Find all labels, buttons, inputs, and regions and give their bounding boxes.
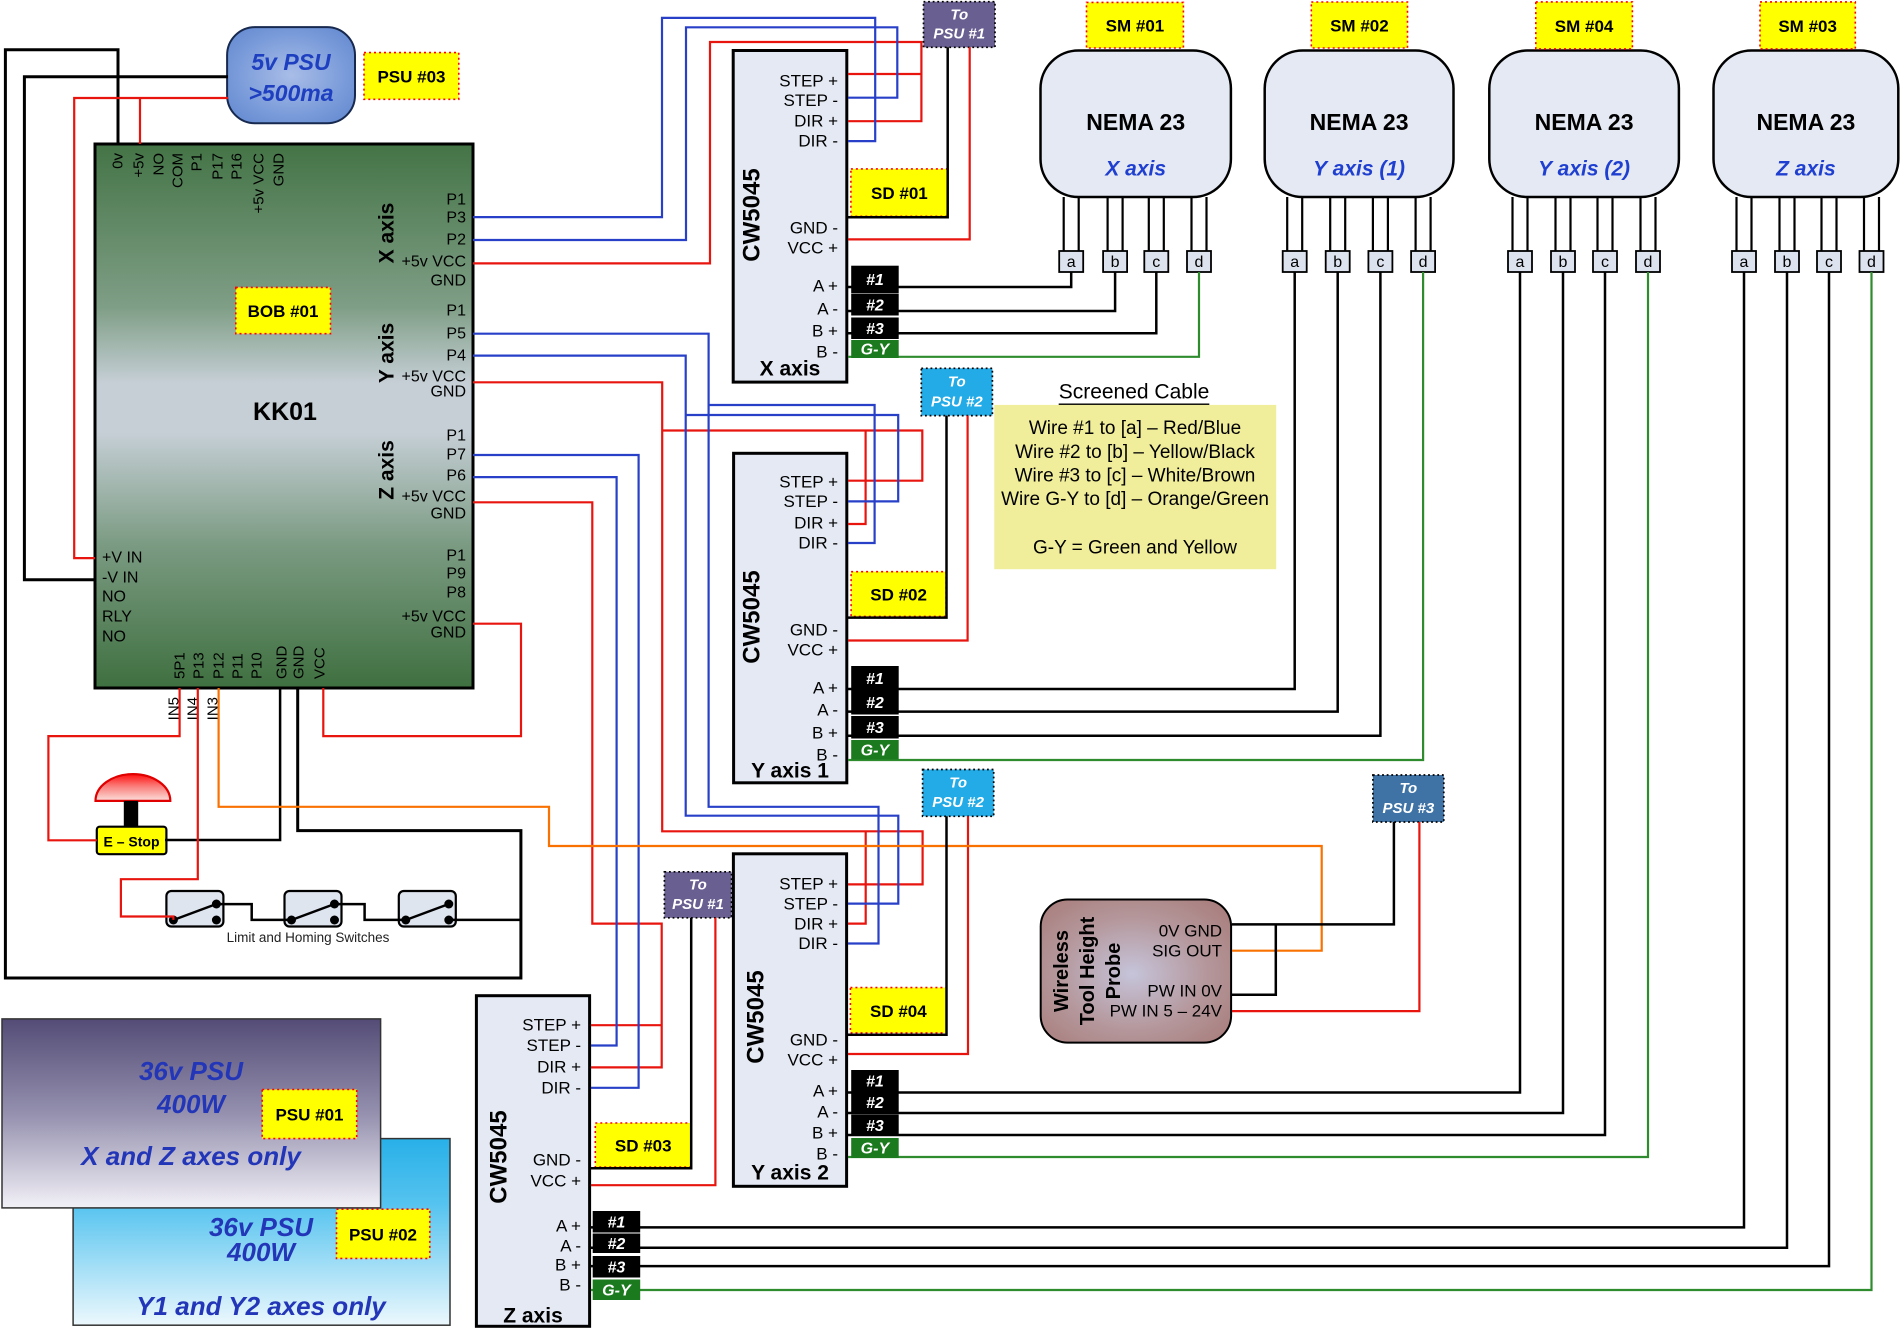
wire 0v ground frame loop xyxy=(5,50,521,978)
label PSU #01 xyxy=(262,1090,357,1139)
svg-text:Tool Height: Tool Height xyxy=(1077,916,1099,1025)
svg-text:Wire #3 to [c] – White/Brown: Wire #3 to [c] – White/Brown xyxy=(1015,466,1256,487)
svg-text:G-Y: G-Y xyxy=(602,1282,632,1299)
e-stop button xyxy=(96,774,171,854)
power supply 36v PSU #01 xyxy=(2,1019,381,1208)
limit switch S2 xyxy=(285,891,342,927)
wire Y1 A+ to SM2 a xyxy=(848,272,1295,689)
svg-text:STEP +: STEP + xyxy=(779,473,838,492)
svg-text:X axis: X axis xyxy=(760,358,821,381)
stepper driver U-X (X axis) xyxy=(733,51,847,383)
svg-text:5P1: 5P1 xyxy=(172,652,189,679)
svg-text:SM #04: SM #04 xyxy=(1555,17,1614,36)
svg-text:STEP -: STEP - xyxy=(784,492,838,511)
wire -V IN to 5v PSU 0v xyxy=(24,77,228,580)
svg-text:GND: GND xyxy=(430,625,466,642)
svg-text:COM: COM xyxy=(170,153,187,188)
wire P4 branch to Y1 STEP- xyxy=(686,415,899,501)
stepper motor SM3 (Z axis) xyxy=(1714,51,1899,273)
svg-text:GND: GND xyxy=(430,384,466,401)
svg-text:PW IN 0V: PW IN 0V xyxy=(1147,982,1222,1001)
svg-text:P13: P13 xyxy=(191,652,208,679)
wire number labels Y1 driver xyxy=(851,666,899,760)
svg-text:P1: P1 xyxy=(446,428,466,445)
svg-text:Y axis 2: Y axis 2 xyxy=(751,1162,829,1185)
svg-text:PSU #2: PSU #2 xyxy=(932,794,984,811)
svg-text:c: c xyxy=(1601,254,1609,271)
svg-text:A -: A - xyxy=(817,1103,838,1122)
svg-text:b: b xyxy=(1111,254,1120,271)
svg-text:A +: A + xyxy=(813,277,838,296)
power supply 5v PSU xyxy=(227,27,355,123)
svg-text:VCC +: VCC + xyxy=(530,1172,581,1191)
svg-text:a: a xyxy=(1740,254,1749,271)
svg-text:NO: NO xyxy=(102,589,126,606)
label To PSU #3 (probe) xyxy=(1373,775,1444,822)
svg-text:d: d xyxy=(1419,254,1428,271)
svg-text:To: To xyxy=(689,877,707,894)
wire Z VCC to Z DIR+ xyxy=(473,502,662,1067)
wire To PSU2 VCC to Y1 driver xyxy=(848,416,968,641)
svg-text:c: c xyxy=(1825,254,1833,271)
svg-text:SM #02: SM #02 xyxy=(1330,17,1389,36)
svg-text:P6: P6 xyxy=(446,468,466,485)
wire P4 to Y2 STEP- xyxy=(473,356,898,904)
svg-text:Y axis: Y axis xyxy=(376,323,399,383)
svg-text:PSU #03: PSU #03 xyxy=(377,68,445,87)
label PSU #02 xyxy=(337,1209,430,1258)
svg-text:PSU #01: PSU #01 xyxy=(275,1106,343,1125)
svg-text:P10: P10 xyxy=(249,652,266,679)
svg-text:X and Z axes only: X and Z axes only xyxy=(79,1141,302,1171)
svg-text:b: b xyxy=(1559,254,1568,271)
wire 5v PSU to +5v and +V IN xyxy=(74,98,228,558)
svg-text:Z axis: Z axis xyxy=(503,1305,563,1328)
stepper motor SM4 (Y axis (2)) xyxy=(1489,51,1679,273)
svg-text:P1: P1 xyxy=(446,303,466,320)
svg-text:Z axis: Z axis xyxy=(1775,158,1836,181)
label SD #01 xyxy=(851,169,948,216)
svg-text:E – Stop: E – Stop xyxy=(103,834,159,850)
stepper driver U-Y2 (Y axis 2) xyxy=(733,854,846,1187)
svg-text:PSU #1: PSU #1 xyxy=(933,26,985,43)
svg-text:#2: #2 xyxy=(866,298,884,315)
wire GND to e-stop xyxy=(165,688,280,840)
svg-text:Screened Cable: Screened Cable xyxy=(1059,381,1210,404)
wire Y VCC branch to Y1 STEP+ xyxy=(662,431,922,481)
svg-text:A -: A - xyxy=(817,701,838,720)
svg-text:Wire #1 to [a] – Red/Blue: Wire #1 to [a] – Red/Blue xyxy=(1029,418,1241,439)
svg-text:SD #04: SD #04 xyxy=(870,1002,927,1021)
svg-text:GND -: GND - xyxy=(790,621,838,640)
svg-text:b: b xyxy=(1333,254,1342,271)
svg-text:VCC +: VCC + xyxy=(787,239,838,258)
svg-text:0v: 0v xyxy=(110,153,127,169)
wire Y1 B- to SM2 d xyxy=(848,272,1423,760)
label SM #02 xyxy=(1311,2,1407,48)
label PSU #03 xyxy=(364,53,459,100)
svg-text:To: To xyxy=(950,6,968,23)
svg-text:#1: #1 xyxy=(866,272,884,289)
label SD #03 xyxy=(595,1123,691,1167)
svg-text:P5: P5 xyxy=(446,326,466,343)
wire To PSU2 GND to Y1 driver xyxy=(848,416,947,618)
svg-text:P12: P12 xyxy=(211,652,228,679)
svg-text:#2: #2 xyxy=(608,1236,626,1253)
svg-text:GND -: GND - xyxy=(790,1031,838,1050)
wire X B+ to SM1 c xyxy=(848,272,1156,333)
svg-text:d: d xyxy=(1195,254,1204,271)
svg-text:Y axis 1: Y axis 1 xyxy=(751,760,829,783)
svg-text:DIR +: DIR + xyxy=(794,915,838,934)
svg-text:P1: P1 xyxy=(446,192,466,209)
wire number labels X driver xyxy=(851,266,899,359)
svg-text:DIR +: DIR + xyxy=(794,112,838,131)
svg-text:VCC +: VCC + xyxy=(787,1051,838,1070)
svg-text:VCC: VCC xyxy=(312,647,329,679)
svg-text:G-Y: G-Y xyxy=(861,742,891,759)
svg-text:A -: A - xyxy=(817,300,838,319)
limit switch S1 xyxy=(166,891,223,927)
label SM #04 xyxy=(1536,2,1633,49)
svg-text:P4: P4 xyxy=(446,348,466,365)
svg-text:0V GND: 0V GND xyxy=(1159,922,1222,941)
wire number labels Z driver xyxy=(593,1211,641,1300)
svg-text:a: a xyxy=(1067,254,1076,271)
svg-text:G-Y = Green and Yellow: G-Y = Green and Yellow xyxy=(1033,537,1237,558)
svg-text:DIR -: DIR - xyxy=(798,132,838,151)
svg-text:SD #01: SD #01 xyxy=(871,184,928,203)
svg-text:STEP +: STEP + xyxy=(522,1016,581,1035)
svg-text:+V IN: +V IN xyxy=(102,550,142,567)
svg-text:a: a xyxy=(1516,254,1525,271)
svg-text:X axis: X axis xyxy=(1104,158,1166,181)
label To PSU #2 (Y1) xyxy=(921,368,992,415)
wire Y2 B+ to SM4 c xyxy=(848,272,1605,1135)
svg-text:PSU #2: PSU #2 xyxy=(931,393,983,410)
svg-text:#2: #2 xyxy=(866,1095,884,1112)
svg-text:d: d xyxy=(1644,254,1653,271)
svg-text:#1: #1 xyxy=(866,1073,884,1090)
svg-text:#1: #1 xyxy=(608,1214,626,1231)
svg-text:c: c xyxy=(1152,254,1160,271)
wire P7 to Z DIR- xyxy=(473,455,639,1088)
wire To PSU1 GND to Z driver xyxy=(591,918,691,1169)
wire X A- to SM1 b xyxy=(848,272,1115,311)
wire Y2 A+ to SM4 a xyxy=(848,272,1520,1093)
svg-text:GND: GND xyxy=(271,153,288,187)
wire X VCC to X STEP+ DIR+ xyxy=(473,42,921,263)
wire Z B- to SM3 d xyxy=(591,272,1872,1290)
svg-text:NO: NO xyxy=(151,153,168,176)
svg-text:P2: P2 xyxy=(446,232,466,249)
svg-text:SD #03: SD #03 xyxy=(615,1137,672,1156)
wire IN5 to e-stop xyxy=(48,688,179,840)
wire To PSU3 GND to probe 0V GND xyxy=(1232,822,1394,924)
svg-text:400W: 400W xyxy=(226,1237,297,1267)
svg-text:KK01: KK01 xyxy=(253,398,317,426)
svg-text:B +: B + xyxy=(812,1124,838,1143)
svg-text:SIG OUT: SIG OUT xyxy=(1152,942,1222,961)
wire To PSU1 VCC to X driver xyxy=(848,47,970,239)
label SD #04 xyxy=(850,988,946,1033)
svg-text:#1: #1 xyxy=(866,671,884,688)
svg-text:STEP +: STEP + xyxy=(779,72,838,91)
svg-text:SM #03: SM #03 xyxy=(1778,17,1837,36)
stepper driver U-Z (Z axis) xyxy=(476,996,589,1328)
wire Z B+ to SM3 c xyxy=(591,272,1829,1266)
svg-text:DIR -: DIR - xyxy=(798,534,838,553)
svg-text:IN4: IN4 xyxy=(185,697,202,720)
svg-text:B -: B - xyxy=(559,1276,581,1295)
svg-text:PW IN 5 – 24V: PW IN 5 – 24V xyxy=(1110,1002,1223,1021)
wire P2 to X STEP- xyxy=(473,27,897,240)
svg-text:Wire G-Y to [d] – Orange/Green: Wire G-Y to [d] – Orange/Green xyxy=(1001,489,1269,510)
wire +5v VCC loop to VCC pin xyxy=(323,624,521,736)
svg-text:P3: P3 xyxy=(446,210,466,227)
svg-text:PSU #02: PSU #02 xyxy=(349,1226,417,1245)
svg-text:A +: A + xyxy=(813,679,838,698)
svg-text:B +: B + xyxy=(555,1256,581,1275)
svg-text:5v PSU: 5v PSU xyxy=(251,49,332,75)
wire To PSU3 to probe PW IN xyxy=(1232,822,1419,1011)
svg-text:P9: P9 xyxy=(446,566,466,583)
label SD #02 xyxy=(851,572,946,617)
svg-text:P16: P16 xyxy=(229,153,246,180)
wire Y2 B- to SM4 d xyxy=(848,272,1648,1157)
wire switch1 to switch2 xyxy=(216,904,291,920)
svg-text:P1: P1 xyxy=(446,548,466,565)
wire switch3 to frame xyxy=(449,919,521,922)
wire To PSU1 VCC to Z driver xyxy=(591,918,715,1185)
svg-text:To: To xyxy=(949,775,967,792)
svg-text:Y1 and Y2 axes only: Y1 and Y2 axes only xyxy=(136,1291,387,1321)
svg-text:GND: GND xyxy=(274,646,291,680)
wire P5 branch to Y1 DIR- xyxy=(709,405,875,543)
wire Y1 DIR+ branch xyxy=(848,431,866,525)
svg-text:36v PSU: 36v PSU xyxy=(139,1056,244,1086)
wire IN3 to probe SIG OUT xyxy=(219,688,1322,951)
wire To PSU2 GND to Y2 driver xyxy=(848,816,947,1035)
svg-text:400W: 400W xyxy=(156,1089,227,1119)
wire Z A+ to SM3 a xyxy=(591,272,1744,1227)
legend screened cable xyxy=(994,381,1276,570)
svg-text:STEP -: STEP - xyxy=(527,1036,581,1055)
svg-text:NEMA 23: NEMA 23 xyxy=(1756,109,1855,135)
svg-text:PSU #3: PSU #3 xyxy=(1382,800,1434,817)
svg-text:NO: NO xyxy=(102,629,126,646)
wire Y2 DIR+ branch xyxy=(848,831,866,923)
label SM #03 xyxy=(1760,2,1855,49)
wire Z STEP+ branch xyxy=(591,1024,662,1026)
svg-text:#3: #3 xyxy=(866,321,884,338)
svg-text:A -: A - xyxy=(560,1237,581,1256)
svg-text:STEP -: STEP - xyxy=(784,91,838,110)
svg-text:#2: #2 xyxy=(866,695,884,712)
svg-text:DIR +: DIR + xyxy=(794,514,838,533)
wire probe PW IN 0V branch xyxy=(1232,924,1276,994)
limit switch S3 xyxy=(399,891,456,927)
svg-text:GND: GND xyxy=(291,646,308,680)
breakout board BOB KK01 xyxy=(95,144,473,720)
stepper motor SM2 (Y axis (1)) xyxy=(1265,51,1454,273)
svg-text:Wire #2 to [b] – Yellow/Black: Wire #2 to [b] – Yellow/Black xyxy=(1015,442,1255,463)
svg-text:+5v: +5v xyxy=(131,153,148,178)
wireless tool height probe xyxy=(1041,900,1231,1043)
svg-text:+5v VCC: +5v VCC xyxy=(402,609,466,626)
svg-text:PSU #1: PSU #1 xyxy=(672,896,724,913)
wire P6 to Z STEP- xyxy=(473,477,617,1045)
svg-text:SD #02: SD #02 xyxy=(870,586,927,605)
svg-text:GND: GND xyxy=(430,273,466,290)
svg-text:Z axis: Z axis xyxy=(376,440,399,500)
wire Y1 B+ to SM2 c xyxy=(848,272,1380,736)
svg-text:a: a xyxy=(1290,254,1299,271)
svg-text:Y axis (1): Y axis (1) xyxy=(1313,158,1405,181)
label To PSU #2 (Y2) xyxy=(923,770,994,817)
svg-text:DIR -: DIR - xyxy=(798,934,838,953)
svg-text:NEMA 23: NEMA 23 xyxy=(1310,109,1409,135)
svg-text:Limit and Homing Switches: Limit and Homing Switches xyxy=(227,930,390,945)
svg-text:#3: #3 xyxy=(866,1118,884,1135)
wire Z A- to SM3 b xyxy=(591,272,1787,1248)
svg-text:-V IN: -V IN xyxy=(102,570,138,587)
svg-text:NEMA 23: NEMA 23 xyxy=(1086,109,1185,135)
svg-text:To: To xyxy=(948,374,966,391)
svg-text:To: To xyxy=(1399,780,1417,797)
wire To PSU2 VCC to Y2 driver xyxy=(848,816,968,1054)
svg-text:DIR +: DIR + xyxy=(537,1058,581,1077)
wire Y1 A- to SM2 b xyxy=(848,272,1338,712)
svg-text:A +: A + xyxy=(813,1082,838,1101)
svg-text:P7: P7 xyxy=(446,447,466,464)
svg-text:Probe: Probe xyxy=(1103,943,1125,1000)
svg-text:Wireless: Wireless xyxy=(1051,930,1073,1012)
svg-text:STEP +: STEP + xyxy=(779,875,838,894)
wire 5v PSU branch to +5v pin xyxy=(139,98,141,144)
svg-text:d: d xyxy=(1867,254,1876,271)
wire X STEP+ branch xyxy=(848,73,921,75)
svg-text:VCC +: VCC + xyxy=(787,641,838,660)
svg-text:b: b xyxy=(1783,254,1792,271)
svg-text:#3: #3 xyxy=(608,1259,626,1276)
stepper driver U-Y1 (Y axis 1) xyxy=(734,453,847,783)
wire P3 to X DIR- xyxy=(473,18,875,217)
svg-text:BOB #01: BOB #01 xyxy=(248,302,319,321)
svg-text:B +: B + xyxy=(812,724,838,743)
svg-text:+5v VCC: +5v VCC xyxy=(251,153,268,214)
wire To PSU1 GND to X driver xyxy=(848,47,948,217)
label To PSU #1 (X) xyxy=(924,2,996,48)
svg-text:SM #01: SM #01 xyxy=(1106,17,1165,36)
wire X A+ to SM1 a xyxy=(848,272,1071,287)
svg-text:NEMA 23: NEMA 23 xyxy=(1535,109,1634,135)
svg-text:+5v VCC: +5v VCC xyxy=(402,254,466,271)
svg-text:P1: P1 xyxy=(189,153,206,171)
power supply 36v PSU #02 xyxy=(73,1139,450,1326)
stepper motor SM1 (X axis) xyxy=(1041,51,1231,273)
svg-text:G-Y: G-Y xyxy=(861,342,891,359)
svg-text:Y axis (2): Y axis (2) xyxy=(1538,158,1630,181)
svg-text:RLY: RLY xyxy=(102,609,132,626)
svg-text:P8: P8 xyxy=(446,585,466,602)
wire IN4 to switch1 xyxy=(121,688,198,920)
label SM #01 xyxy=(1087,2,1184,48)
svg-text:CW5045: CW5045 xyxy=(739,570,766,663)
wire Y2 A- to SM4 b xyxy=(848,272,1563,1113)
label To PSU #1 (Z) xyxy=(664,872,731,918)
wire P5 to Y2 DIR- xyxy=(473,334,879,944)
svg-text:A +: A + xyxy=(556,1217,581,1236)
svg-text:G-Y: G-Y xyxy=(861,1141,891,1158)
svg-text:GND -: GND - xyxy=(533,1151,581,1170)
svg-text:CW5045: CW5045 xyxy=(739,168,766,261)
svg-text:DIR -: DIR - xyxy=(541,1079,581,1098)
wire switch2 to switch3 xyxy=(333,904,405,920)
wire Y VCC to Y2 STEP+ xyxy=(473,382,923,884)
svg-text:B +: B + xyxy=(812,322,838,341)
wire number labels Y2 driver xyxy=(851,1070,899,1158)
svg-text:X axis: X axis xyxy=(376,203,399,264)
svg-text:+5v VCC: +5v VCC xyxy=(402,489,466,506)
svg-text:GND: GND xyxy=(430,506,466,523)
svg-text:>500ma: >500ma xyxy=(248,80,333,106)
label BOB #01 xyxy=(236,287,331,333)
svg-text:#3: #3 xyxy=(866,720,884,737)
svg-text:P11: P11 xyxy=(230,653,247,679)
svg-text:CW5045: CW5045 xyxy=(486,1110,513,1203)
svg-text:GND -: GND - xyxy=(790,219,838,238)
wire X B- to SM1 d xyxy=(848,272,1199,357)
svg-text:STEP -: STEP - xyxy=(784,895,838,914)
svg-text:P17: P17 xyxy=(210,153,227,180)
svg-text:CW5045: CW5045 xyxy=(743,970,770,1063)
svg-text:c: c xyxy=(1376,254,1384,271)
